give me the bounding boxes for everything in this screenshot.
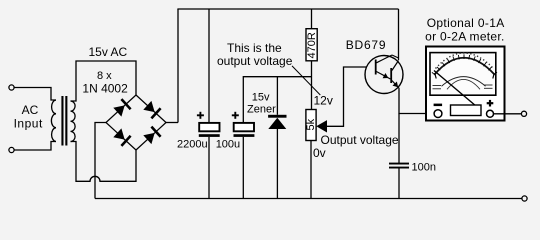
svg-text:100u: 100u [216, 139, 240, 151]
svg-text:or 0-2A meter.: or 0-2A meter. [425, 30, 505, 44]
svg-text:Optional 0-1A: Optional 0-1A [427, 16, 505, 30]
output minus terminal [522, 196, 527, 201]
svg-text:AC: AC [22, 103, 39, 117]
capacitor C1 2200u [199, 123, 220, 137]
svg-text:Input: Input [14, 117, 43, 131]
plus rail (top) [177, 8, 398, 10]
bridge diode D2 (top to right) [143, 101, 160, 119]
svg-text:2200u: 2200u [177, 139, 208, 151]
svg-text:12v: 12v [314, 94, 333, 108]
svg-text:5k: 5k [305, 118, 317, 130]
wire plus rail to R1 top [311, 9, 313, 29]
svg-text:8 x: 8 x [97, 70, 112, 82]
bridge diode D4 (bottom to right) [143, 127, 160, 145]
wire bridge positive node to plus rail riser [166, 122, 178, 124]
transformer T1 secondary winding [71, 101, 76, 142]
pointer line from note to 12v label [292, 66, 320, 95]
wire R1 bottom to potentiometer top (12v node) [311, 61, 313, 110]
meter terminal plus [487, 110, 494, 117]
transformer T1 primary winding [51, 100, 56, 142]
bridge diamond wires [106, 95, 166, 150]
resistor R1 470R [306, 29, 317, 61]
meter needle [434, 71, 480, 110]
svg-text:0v: 0v [313, 146, 326, 160]
wire bridge negative node down to 0v rail [95, 123, 106, 199]
wire C2 bottom to 0v rail [242, 137, 244, 199]
wire C1 bottom to 0v rail [208, 137, 210, 199]
0v rail (bottom) [95, 198, 522, 200]
svg-text:15v AC: 15v AC [89, 45, 128, 59]
meter scale window [430, 53, 496, 96]
capacitor C2 100u [234, 123, 255, 137]
AC input terminal top [9, 85, 14, 90]
node wire: C2 top / zener top / 12v column [243, 77, 311, 123]
meter terminal minus [434, 110, 442, 118]
bridge diode D3 (left to bottom) [113, 128, 130, 146]
meter M1 body [426, 47, 505, 121]
svg-text:Zener: Zener [247, 103, 276, 115]
meter minus label [434, 104, 443, 107]
transistor Q1 BD679 darlington [365, 55, 403, 94]
wire emitter down to output line [399, 89, 435, 114]
wire secondary bottom to bridge bottom node (with hop over 0v drop wire) [71, 142, 137, 182]
svg-text:1N 4002: 1N 4002 [82, 82, 128, 96]
svg-text:Output voltage: Output voltage [321, 133, 399, 147]
wire output line to C3 top [398, 114, 400, 164]
wire from top AC terminal to transformer primary top [14, 88, 56, 101]
transformer T1 core [61, 96, 67, 146]
wire wiper to transistor base [327, 67, 367, 126]
wire VR1 bottom to 0v rail [310, 141, 312, 199]
wire meter plus terminal to output plus terminal [494, 113, 522, 115]
wire node to zener cathode [276, 77, 278, 115]
svg-text:470R: 470R [306, 32, 318, 58]
VR1 wiper arrow [316, 120, 327, 132]
wire plus rail to C1 top [208, 9, 210, 123]
svg-text:15v: 15v [252, 91, 270, 103]
potentiometer VR1 5k body [306, 110, 316, 141]
svg-text:output voltage: output voltage [217, 54, 293, 68]
bridge diode D1 (left to top) [113, 99, 130, 117]
wire zener anode to 0v rail [276, 129, 278, 199]
capacitor C3 100n [389, 163, 409, 169]
svg-text:100n: 100n [412, 161, 436, 173]
output plus terminal [521, 111, 526, 116]
C2 plus sign [232, 112, 239, 119]
wire secondary top to 15v AC line and down to bridge top node [71, 61, 137, 101]
meter small window [451, 105, 482, 116]
svg-text:BD679: BD679 [346, 38, 387, 52]
meter plus label [487, 100, 494, 107]
zener diode ZD1 15v [268, 115, 286, 129]
plus rail riser [177, 9, 179, 123]
wire C3 bottom to 0v rail [398, 169, 400, 199]
AC input terminal bottom [9, 147, 14, 152]
wire from bottom AC terminal to transformer primary bottom [14, 142, 56, 151]
wire plus rail to collector [398, 9, 400, 60]
meter scale arcs and ticks [432, 53, 497, 89]
C1 plus sign [197, 112, 204, 119]
